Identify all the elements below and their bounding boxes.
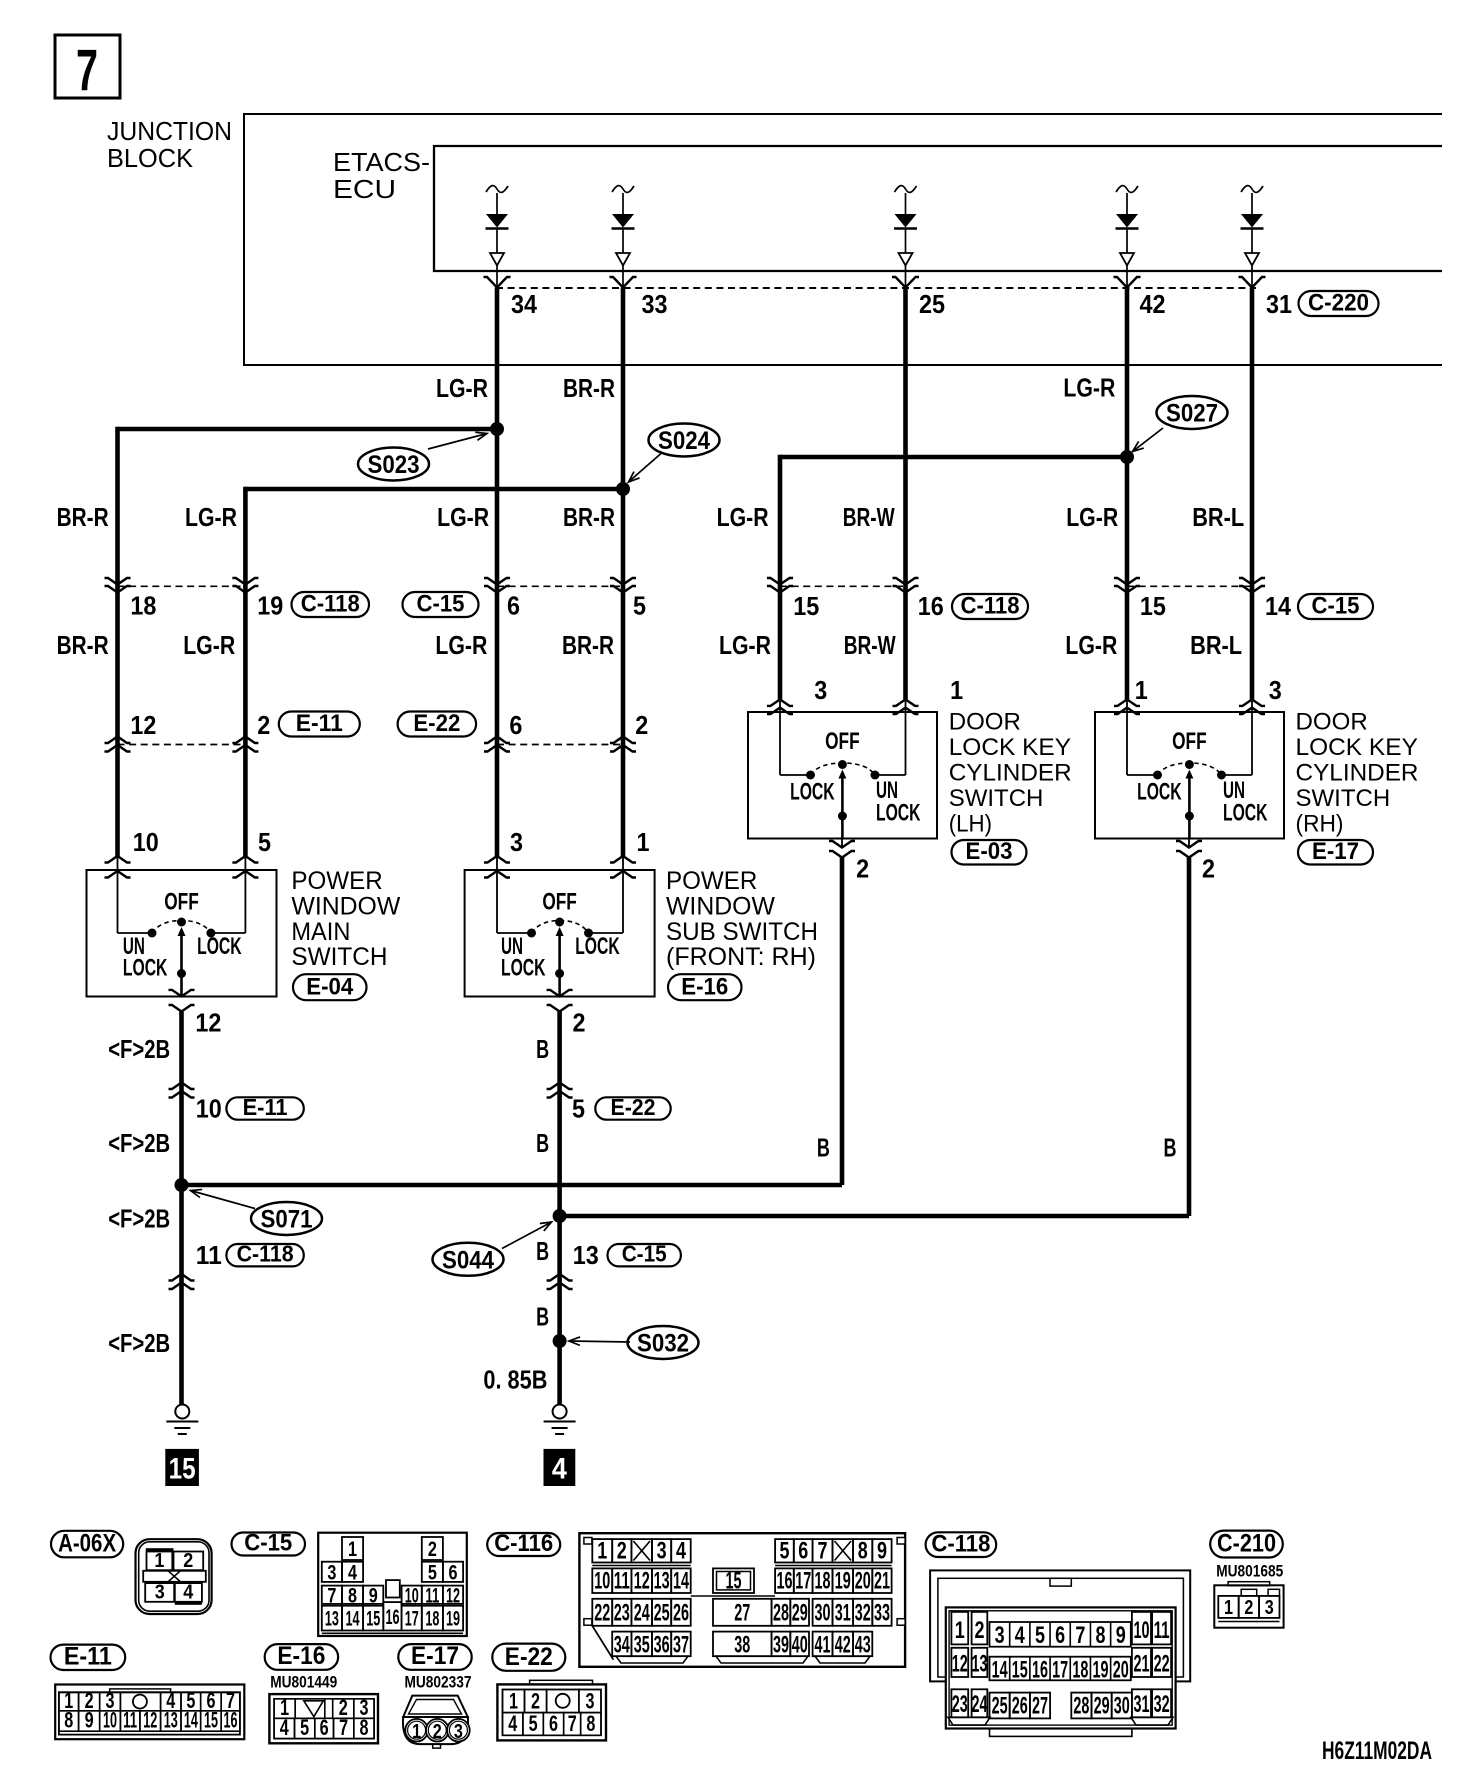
- svg-text:LOCK: LOCK: [501, 954, 546, 981]
- svg-text:11: 11: [425, 1584, 439, 1607]
- svg-text:4: 4: [280, 1715, 290, 1740]
- svg-text:21: 21: [1133, 1651, 1149, 1678]
- svg-text:LOCK: LOCK: [575, 933, 620, 960]
- svg-text:BR-R: BR-R: [57, 502, 109, 532]
- svg-text:18: 18: [130, 591, 156, 621]
- svg-text:18: 18: [1072, 1657, 1088, 1684]
- svg-text:8: 8: [586, 1711, 595, 1736]
- svg-text:6: 6: [507, 591, 520, 621]
- svg-text:27: 27: [1032, 1693, 1048, 1720]
- svg-text:C-15: C-15: [417, 591, 465, 618]
- svg-text:LG-R: LG-R: [185, 502, 237, 532]
- svg-text:31: 31: [1133, 1691, 1149, 1718]
- svg-text:LOCK: LOCK: [790, 779, 835, 806]
- svg-text:1: 1: [412, 1721, 421, 1743]
- svg-text:18: 18: [425, 1608, 439, 1631]
- svg-text:3: 3: [1265, 1597, 1274, 1619]
- svg-text:SWITCH: SWITCH: [1296, 785, 1391, 812]
- svg-text:DOOR: DOOR: [949, 709, 1021, 736]
- svg-text:C-118: C-118: [931, 1531, 990, 1558]
- svg-text:26: 26: [1012, 1693, 1028, 1720]
- svg-text:9: 9: [85, 1708, 94, 1733]
- svg-text:17: 17: [795, 1568, 811, 1595]
- svg-text:15: 15: [726, 1568, 742, 1595]
- svg-text:4: 4: [552, 1452, 567, 1485]
- svg-text:12: 12: [195, 1008, 221, 1038]
- svg-text:S023: S023: [368, 451, 420, 479]
- svg-text:6: 6: [549, 1711, 558, 1736]
- svg-text:7: 7: [76, 38, 98, 103]
- svg-text:24: 24: [634, 1600, 650, 1627]
- svg-text:E-11: E-11: [243, 1094, 288, 1120]
- svg-text:LG-R: LG-R: [436, 373, 488, 403]
- svg-text:11: 11: [614, 1568, 630, 1595]
- svg-text:WINDOW: WINDOW: [666, 892, 775, 920]
- svg-text:E-22: E-22: [611, 1094, 656, 1120]
- svg-text:37: 37: [673, 1632, 689, 1659]
- svg-text:4: 4: [508, 1711, 518, 1736]
- svg-text:C-220: C-220: [1308, 290, 1369, 317]
- svg-text:3: 3: [995, 1622, 1005, 1649]
- svg-text:25: 25: [992, 1693, 1008, 1720]
- svg-text:4: 4: [676, 1538, 686, 1565]
- svg-text:13: 13: [654, 1568, 670, 1595]
- svg-text:10: 10: [594, 1568, 610, 1595]
- svg-text:BR-L: BR-L: [1192, 502, 1244, 532]
- svg-text:24: 24: [971, 1691, 987, 1718]
- svg-text:12: 12: [446, 1584, 460, 1607]
- svg-text:SWITCH: SWITCH: [949, 785, 1044, 812]
- svg-text:1: 1: [154, 1550, 164, 1572]
- svg-text:1: 1: [1224, 1597, 1233, 1619]
- svg-text:E-16: E-16: [277, 1642, 325, 1670]
- svg-text:5: 5: [300, 1715, 309, 1740]
- svg-text:0. 85B: 0. 85B: [483, 1365, 547, 1395]
- svg-text:8: 8: [359, 1715, 368, 1740]
- svg-text:C-15: C-15: [244, 1529, 292, 1556]
- svg-text:19: 19: [257, 591, 283, 621]
- svg-text:41: 41: [815, 1632, 831, 1659]
- svg-text:E-17: E-17: [1312, 838, 1359, 865]
- svg-text:2: 2: [635, 710, 648, 740]
- svg-text:4: 4: [183, 1582, 194, 1604]
- svg-text:OFF: OFF: [1172, 728, 1207, 755]
- svg-text:BR-R: BR-R: [562, 630, 614, 660]
- svg-text:E-11: E-11: [64, 1642, 112, 1670]
- svg-text:10: 10: [1133, 1617, 1149, 1644]
- svg-text:31: 31: [1266, 289, 1292, 319]
- svg-text:13: 13: [971, 1651, 987, 1678]
- svg-text:12: 12: [130, 710, 156, 740]
- svg-text:E-04: E-04: [306, 973, 354, 1000]
- svg-text:2: 2: [856, 854, 869, 884]
- svg-text:BR-W: BR-W: [844, 630, 896, 660]
- svg-text:6: 6: [1055, 1622, 1065, 1649]
- svg-text:BR-W: BR-W: [843, 502, 895, 532]
- svg-text:35: 35: [634, 1632, 650, 1659]
- svg-text:5: 5: [779, 1538, 789, 1565]
- svg-text:15: 15: [1140, 591, 1166, 621]
- svg-text:C-118: C-118: [961, 593, 1020, 620]
- svg-text:9: 9: [369, 1584, 378, 1607]
- svg-text:LG-R: LG-R: [1066, 502, 1118, 532]
- svg-text:6: 6: [320, 1715, 329, 1740]
- svg-text:LG-R: LG-R: [1063, 373, 1115, 403]
- svg-text:30: 30: [1114, 1693, 1130, 1720]
- svg-text:2: 2: [1202, 854, 1215, 884]
- svg-text:14: 14: [992, 1657, 1008, 1684]
- svg-text:B: B: [1164, 1133, 1177, 1163]
- svg-text:E-16: E-16: [681, 973, 728, 1000]
- svg-text:15: 15: [1012, 1657, 1028, 1684]
- svg-text:10: 10: [103, 1708, 117, 1733]
- svg-text:15: 15: [793, 591, 819, 621]
- svg-text:WINDOW: WINDOW: [291, 892, 400, 920]
- svg-text:BLOCK: BLOCK: [107, 143, 194, 173]
- svg-text:1: 1: [637, 827, 650, 857]
- svg-text:LOCK: LOCK: [876, 800, 921, 827]
- svg-text:MU801685: MU801685: [1216, 1562, 1283, 1581]
- svg-text:<F>2B: <F>2B: [108, 1204, 170, 1234]
- svg-text:<F>2B: <F>2B: [108, 1328, 170, 1358]
- svg-text:S071: S071: [261, 1206, 313, 1234]
- svg-text:3: 3: [327, 1561, 336, 1584]
- svg-text:A-06X: A-06X: [58, 1529, 116, 1557]
- svg-text:E-11: E-11: [296, 710, 343, 737]
- svg-text:23: 23: [952, 1691, 968, 1718]
- svg-text:3: 3: [1269, 675, 1282, 705]
- svg-text:LG-R: LG-R: [717, 502, 769, 532]
- svg-text:19: 19: [446, 1608, 460, 1631]
- svg-text:LOCK KEY: LOCK KEY: [1296, 734, 1418, 761]
- svg-text:12: 12: [143, 1708, 157, 1733]
- svg-text:40: 40: [792, 1632, 808, 1659]
- svg-text:23: 23: [614, 1600, 630, 1627]
- svg-text:(RH): (RH): [1296, 811, 1344, 838]
- svg-text:6: 6: [449, 1561, 458, 1584]
- svg-text:14: 14: [184, 1708, 198, 1733]
- svg-text:2: 2: [183, 1550, 193, 1572]
- svg-text:B: B: [536, 1128, 549, 1158]
- svg-text:16: 16: [776, 1568, 792, 1595]
- svg-text:LOCK: LOCK: [1223, 800, 1268, 827]
- svg-text:MU802337: MU802337: [405, 1673, 472, 1692]
- svg-text:ETACS-: ETACS-: [333, 147, 430, 177]
- svg-text:C-15: C-15: [1312, 593, 1360, 620]
- svg-text:1: 1: [950, 675, 963, 705]
- svg-text:2: 2: [573, 1008, 586, 1038]
- svg-text:14: 14: [1265, 591, 1291, 621]
- svg-text:LOCK: LOCK: [197, 933, 242, 960]
- svg-text:2: 2: [974, 1617, 984, 1644]
- svg-text:13: 13: [164, 1708, 178, 1733]
- svg-text:19: 19: [835, 1568, 851, 1595]
- svg-text:1: 1: [348, 1538, 357, 1561]
- svg-text:2: 2: [531, 1688, 540, 1713]
- svg-text:LG-R: LG-R: [183, 630, 235, 660]
- svg-text:LOCK: LOCK: [123, 954, 168, 981]
- svg-text:C-210: C-210: [1217, 1530, 1276, 1558]
- svg-text:25: 25: [654, 1600, 670, 1627]
- svg-text:31: 31: [835, 1600, 851, 1627]
- svg-text:3: 3: [814, 675, 827, 705]
- svg-text:LG-R: LG-R: [1065, 630, 1117, 660]
- svg-text:3: 3: [454, 1721, 463, 1743]
- svg-text:LG-R: LG-R: [435, 630, 487, 660]
- svg-text:E-17: E-17: [411, 1642, 459, 1670]
- svg-text:S024: S024: [658, 427, 710, 455]
- svg-text:15: 15: [366, 1608, 380, 1631]
- svg-text:<F>2B: <F>2B: [108, 1034, 170, 1064]
- svg-text:19: 19: [1093, 1657, 1109, 1684]
- svg-text:7: 7: [568, 1711, 577, 1736]
- svg-text:20: 20: [1113, 1657, 1129, 1684]
- svg-text:1: 1: [955, 1617, 965, 1644]
- svg-text:17: 17: [405, 1608, 419, 1631]
- svg-text:MAIN: MAIN: [291, 918, 350, 946]
- svg-text:LG-R: LG-R: [437, 502, 489, 532]
- svg-text:LOCK KEY: LOCK KEY: [949, 734, 1071, 761]
- svg-text:29: 29: [1094, 1693, 1110, 1720]
- svg-text:1: 1: [1135, 675, 1148, 705]
- svg-text:27: 27: [734, 1600, 750, 1627]
- svg-text:14: 14: [673, 1568, 689, 1595]
- svg-text:BR-R: BR-R: [563, 373, 615, 403]
- svg-text:30: 30: [815, 1600, 831, 1627]
- svg-text:10: 10: [405, 1584, 419, 1607]
- svg-text:8: 8: [1096, 1622, 1106, 1649]
- svg-text:28: 28: [1073, 1693, 1089, 1720]
- svg-text:3: 3: [585, 1688, 594, 1713]
- svg-text:LG-R: LG-R: [719, 630, 771, 660]
- svg-text:5: 5: [1035, 1622, 1045, 1649]
- svg-text:H6Z11M02DA: H6Z11M02DA: [1322, 1737, 1432, 1765]
- svg-text:E-22: E-22: [413, 710, 460, 737]
- svg-text:15: 15: [169, 1452, 196, 1485]
- svg-text:B: B: [536, 1236, 549, 1266]
- svg-text:5: 5: [258, 827, 271, 857]
- svg-text:(FRONT: RH): (FRONT: RH): [666, 943, 816, 971]
- svg-text:10: 10: [196, 1094, 222, 1124]
- svg-text:43: 43: [855, 1632, 871, 1659]
- svg-text:5: 5: [572, 1094, 585, 1124]
- svg-text:11: 11: [123, 1708, 137, 1733]
- svg-text:25: 25: [919, 289, 945, 319]
- svg-text:12: 12: [952, 1651, 968, 1678]
- svg-text:15: 15: [204, 1708, 218, 1733]
- svg-text:2: 2: [1244, 1597, 1253, 1619]
- svg-text:(LH): (LH): [949, 811, 992, 838]
- svg-text:B: B: [536, 1302, 549, 1332]
- svg-text:18: 18: [815, 1568, 831, 1595]
- svg-text:32: 32: [1154, 1691, 1170, 1718]
- svg-text:C-15: C-15: [622, 1240, 667, 1266]
- svg-text:32: 32: [855, 1600, 871, 1627]
- svg-text:14: 14: [346, 1608, 360, 1631]
- svg-text:13: 13: [325, 1608, 339, 1631]
- svg-text:26: 26: [673, 1600, 689, 1627]
- svg-text:BR-L: BR-L: [1190, 630, 1242, 660]
- svg-text:21: 21: [874, 1568, 890, 1595]
- svg-text:6: 6: [509, 710, 522, 740]
- svg-text:11: 11: [196, 1240, 222, 1270]
- svg-text:E-22: E-22: [505, 1643, 553, 1671]
- svg-text:4: 4: [348, 1561, 357, 1584]
- svg-text:C-118: C-118: [301, 591, 360, 618]
- svg-text:SWITCH: SWITCH: [291, 943, 387, 971]
- svg-text:OFF: OFF: [825, 728, 860, 755]
- svg-text:2: 2: [617, 1538, 627, 1565]
- svg-text:6: 6: [798, 1538, 808, 1565]
- svg-text:B: B: [536, 1034, 549, 1064]
- svg-text:16: 16: [918, 591, 944, 621]
- svg-text:ECU: ECU: [333, 174, 396, 204]
- svg-text:2: 2: [257, 710, 270, 740]
- svg-text:7: 7: [818, 1538, 828, 1565]
- svg-text:8: 8: [858, 1538, 868, 1565]
- svg-text:42: 42: [835, 1632, 851, 1659]
- svg-text:BR-R: BR-R: [57, 630, 109, 660]
- svg-text:33: 33: [642, 289, 668, 319]
- svg-text:S032: S032: [637, 1330, 689, 1358]
- svg-text:42: 42: [1140, 289, 1166, 319]
- svg-text:S027: S027: [1166, 400, 1218, 428]
- svg-text:1: 1: [509, 1688, 518, 1713]
- svg-text:DOOR: DOOR: [1296, 709, 1368, 736]
- svg-text:8: 8: [64, 1708, 73, 1733]
- svg-text:22: 22: [1154, 1651, 1170, 1678]
- svg-text:39: 39: [773, 1632, 789, 1659]
- svg-text:JUNCTION: JUNCTION: [107, 116, 232, 146]
- svg-text:36: 36: [654, 1632, 670, 1659]
- svg-text:OFF: OFF: [542, 889, 577, 916]
- svg-text:9: 9: [1116, 1622, 1126, 1649]
- svg-text:7: 7: [327, 1584, 336, 1607]
- svg-text:4: 4: [1015, 1622, 1025, 1649]
- svg-text:C-116: C-116: [494, 1530, 553, 1557]
- svg-text:3: 3: [657, 1538, 667, 1565]
- svg-text:17: 17: [1052, 1657, 1068, 1684]
- svg-text:34: 34: [511, 289, 537, 319]
- svg-text:3: 3: [155, 1582, 165, 1604]
- svg-text:2: 2: [428, 1538, 437, 1561]
- svg-text:20: 20: [855, 1568, 871, 1595]
- svg-text:MU801449: MU801449: [270, 1673, 337, 1692]
- svg-text:34: 34: [614, 1632, 630, 1659]
- svg-text:CYLINDER: CYLINDER: [949, 760, 1072, 787]
- svg-text:B: B: [817, 1133, 830, 1163]
- svg-text:POWER: POWER: [291, 867, 382, 895]
- svg-text:11: 11: [1154, 1617, 1170, 1644]
- svg-text:22: 22: [594, 1600, 610, 1627]
- svg-text:C-118: C-118: [237, 1240, 294, 1266]
- svg-text:16: 16: [385, 1606, 399, 1629]
- svg-text:3: 3: [510, 827, 523, 857]
- svg-text:CYLINDER: CYLINDER: [1296, 760, 1419, 787]
- svg-text:16: 16: [1032, 1657, 1048, 1684]
- svg-text:16: 16: [224, 1708, 238, 1733]
- svg-text:E-03: E-03: [966, 838, 1013, 865]
- svg-text:38: 38: [734, 1632, 750, 1659]
- svg-text:S044: S044: [442, 1246, 494, 1274]
- svg-text:<F>2B: <F>2B: [108, 1128, 170, 1158]
- svg-text:12: 12: [634, 1568, 650, 1595]
- svg-text:5: 5: [529, 1711, 538, 1736]
- svg-text:1: 1: [597, 1538, 607, 1565]
- svg-text:7: 7: [1075, 1622, 1085, 1649]
- svg-text:BR-R: BR-R: [563, 502, 615, 532]
- svg-text:OFF: OFF: [164, 889, 199, 916]
- svg-text:29: 29: [792, 1600, 808, 1627]
- svg-text:SUB SWITCH: SUB SWITCH: [666, 918, 818, 946]
- svg-text:28: 28: [773, 1600, 789, 1627]
- svg-text:7: 7: [339, 1715, 348, 1740]
- svg-text:2: 2: [433, 1721, 442, 1743]
- svg-text:5: 5: [633, 591, 646, 621]
- svg-text:13: 13: [573, 1240, 599, 1270]
- svg-text:LOCK: LOCK: [1137, 779, 1182, 806]
- svg-text:33: 33: [874, 1600, 890, 1627]
- svg-text:9: 9: [877, 1538, 887, 1565]
- svg-text:POWER: POWER: [666, 867, 757, 895]
- svg-text:5: 5: [428, 1561, 437, 1584]
- svg-text:8: 8: [348, 1584, 357, 1607]
- svg-text:10: 10: [133, 827, 159, 857]
